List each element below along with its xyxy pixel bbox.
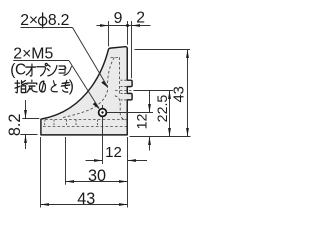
dim line 8.2 upper tail	[25, 100, 27, 119]
dim line 12 bottom left tail	[86, 160, 103, 162]
leader underline phi8.2	[21, 27, 73, 29]
dim line 43 bottom	[41, 204, 128, 206]
hidden inner curve	[62, 58, 114, 118]
svg-text:43: 43	[171, 86, 187, 102]
arrow 12 right bottom	[148, 137, 151, 146]
svg-text:2: 2	[136, 10, 145, 27]
hidden slot end left	[44, 120, 47, 127]
arrow 43 bottom-right	[119, 203, 128, 206]
phi symbol drawn	[39, 17, 47, 25]
leader underline M5	[13, 60, 69, 62]
leader arrow phi8.2	[101, 81, 108, 88]
kana SHI	[47, 65, 57, 76]
dim line 30	[66, 181, 128, 183]
hidden slot lines near tabs	[121, 80, 127, 100]
hole center hidden line	[115, 90, 138, 92]
kanji SHI(finger)	[15, 80, 26, 92]
dim line 12 bottom right tail	[128, 160, 148, 162]
kana no	[39, 81, 45, 92]
M5 hole circle	[99, 109, 107, 117]
dot at B	[126, 24, 129, 27]
kana to	[51, 81, 57, 92]
svg-text:8.2: 8.2	[6, 114, 24, 137]
svg-text:43: 43	[77, 190, 95, 208]
arrow 22.5 bottom	[168, 128, 171, 137]
leader line M5	[69, 61, 99, 109]
extension 8.2 top	[22, 118, 39, 120]
arrow 43 bottom	[186, 128, 189, 137]
hidden pocket bottom-right	[115, 96, 127, 120]
arrow 8.2 top	[24, 110, 27, 119]
extension 8.2 bottom	[20, 134, 37, 136]
hidden vertical line with bend	[119, 57, 121, 95]
arrow into C from right	[132, 24, 141, 27]
dim line 22.5	[169, 91, 171, 137]
arrow 8.2 bottom	[24, 135, 27, 144]
arrow 22.5 top	[168, 91, 171, 100]
svg-text:): )	[69, 78, 74, 95]
svg-text:9: 9	[114, 10, 123, 27]
right bottom extension	[130, 136, 191, 138]
kana PU	[37, 63, 47, 75]
kana small YO	[59, 66, 65, 73]
hidden top connector	[111, 57, 120, 59]
arrow 30 left	[66, 180, 75, 183]
extension: hole center to 22.5 dim	[134, 90, 174, 92]
svg-text:12: 12	[134, 114, 150, 130]
arrow 12 bottom left	[94, 159, 103, 162]
extension: M5 center down	[102, 105, 104, 164]
leader arrow M5	[93, 102, 100, 109]
arrow 30 right	[119, 180, 128, 183]
hidden base vertical ticks	[53, 120, 55, 127]
dim line 12 right upper tail	[149, 91, 151, 113]
dim line 12 right lower tail	[149, 137, 151, 151]
hidden base upper line	[45, 119, 127, 121]
kana N	[64, 66, 72, 75]
extension: M5 center right	[103, 112, 154, 114]
svg-text:(C: (C	[10, 62, 26, 79]
bottom extensions	[40, 137, 42, 208]
arrow 43 bottom-left	[41, 203, 50, 206]
svg-text:2×: 2×	[20, 12, 38, 29]
svg-text:22.5: 22.5	[155, 95, 171, 123]
arrow into A from left	[100, 24, 109, 27]
dim line 9/2	[97, 25, 151, 27]
leader line phi8.2	[73, 28, 108, 87]
kana O	[26, 64, 36, 76]
top dim extensions A,B,C	[108, 21, 110, 46]
right top extension for 43	[135, 49, 191, 51]
svg-text:12: 12	[105, 144, 122, 161]
arrow 12 right top	[148, 104, 151, 113]
svg-text:30: 30	[88, 167, 106, 185]
bracket body outline	[41, 47, 132, 135]
hidden base lower line	[43, 126, 127, 128]
kana ki	[61, 80, 70, 92]
kanji TEI(fix)	[27, 80, 37, 92]
arrow 12 bottom right	[128, 159, 137, 162]
dim line 43 right	[187, 50, 189, 137]
svg-text:8.2: 8.2	[48, 12, 69, 29]
dim line 8.2 lower tail	[25, 135, 27, 150]
arrow 43 top	[186, 50, 189, 59]
